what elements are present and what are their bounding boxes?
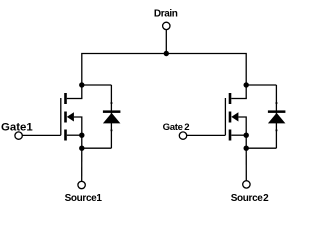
svg-text:Source1: Source1 — [65, 193, 103, 204]
transistor Q1 drain contact bar — [64, 93, 67, 104]
terminal Source1 — [78, 181, 85, 188]
diode D2 triangle — [268, 113, 286, 124]
transistor Q2 gate line — [224, 98, 226, 135]
diode D1 cathode bar — [103, 110, 121, 113]
diode D1 pin tick bottom — [111, 130, 113, 132]
wire drain stem — [165, 30, 167, 54]
junction Q2 source node — [244, 133, 249, 138]
diode D2 pin tick top — [276, 102, 278, 104]
wire diode D2 bottom — [246, 147, 276, 149]
junction drain node — [164, 51, 169, 56]
transistor Q2 drain contact bar — [229, 93, 232, 104]
terminal Gate1 — [15, 132, 22, 139]
wire Q1 body lead — [74, 117, 82, 135]
wire top bus — [82, 54, 246, 99]
diode D1 branch wire — [110, 85, 112, 148]
wire diode D1 bottom — [82, 147, 112, 149]
junction Q1 source-diode node — [79, 146, 84, 151]
diode D1 triangle — [103, 113, 121, 124]
junction Q1 source node — [79, 133, 84, 138]
terminal Gate2 — [179, 132, 186, 139]
wire Q1 to diode D1 top — [82, 84, 112, 86]
diode D2 pin tick bottom — [276, 130, 278, 132]
svg-text:Gate1: Gate1 — [1, 121, 33, 133]
junction Q2 source-diode node — [244, 146, 249, 151]
wire Q2 body lead — [238, 117, 246, 135]
wire Q2 source lead — [231, 134, 246, 136]
svg-text:Drain: Drain — [154, 9, 178, 20]
wire Q1 source down — [81, 135, 83, 181]
transistor Q2 body arrow — [231, 112, 238, 121]
junction Q1 drain-diode node — [79, 82, 84, 87]
transistor Q1 source contact bar — [64, 130, 67, 141]
transistor Q1 body contact bar — [64, 112, 67, 123]
terminal Source2 — [243, 181, 250, 188]
transistor Q1 body arrow — [67, 112, 74, 121]
wire Gate2 lead — [187, 134, 226, 136]
wire Q1 drain lead — [67, 98, 83, 100]
terminal Drain — [163, 22, 170, 29]
diode D1 pin tick top — [111, 102, 113, 104]
wire Q2 source down — [245, 135, 247, 180]
wire Q2 drain lead — [231, 98, 247, 100]
svg-text:Gate2: Gate2 — [163, 122, 190, 133]
svg-text:Source2: Source2 — [231, 193, 269, 204]
wire Q2 to diode D2 top — [246, 84, 276, 86]
junction Q2 drain-diode node — [244, 82, 249, 87]
wire Q1 source lead — [67, 134, 82, 136]
wire Gate1 lead — [22, 134, 61, 136]
diode D2 cathode bar — [268, 110, 286, 113]
transistor Q1 gate line — [60, 98, 62, 135]
transistor Q2 source contact bar — [229, 130, 232, 141]
diode D2 branch wire — [275, 85, 277, 148]
transistor Q2 body contact bar — [229, 112, 232, 123]
